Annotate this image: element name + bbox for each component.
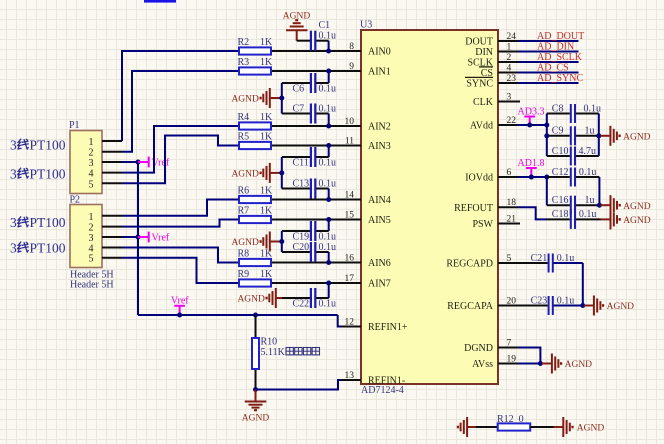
wire P2.3 to Vref node [122,236,138,238]
svg-text:6: 6 [507,168,512,178]
wire AD_DOUT [518,40,579,42]
svg-text:0.1u: 0.1u [319,31,337,42]
wire R2 output row to U3 [271,50,361,52]
resistor R10 5.11K [252,315,259,390]
wire R6 output row to U3 [271,199,361,201]
wire AD_SCLK [518,61,579,63]
R10 value label 5.11K precision resistor [261,347,320,358]
svg-text:REFOUT: REFOUT [454,203,493,214]
svg-text:AD_CS: AD_CS [537,63,569,74]
svg-text:R4: R4 [238,112,250,123]
svg-text:IOVdd: IOVdd [465,173,493,184]
svg-text:Vref: Vref [152,233,170,244]
junction C23/C21 right [580,303,585,308]
svg-text:0.1u: 0.1u [319,231,337,242]
pin 10 (AIN2) of U3 [341,117,391,133]
pin 7 (DGND) of U3 [464,338,518,354]
svg-text:3: 3 [89,158,94,169]
power port AD3.3 [518,106,545,125]
resistor R6 1K [238,185,274,203]
pin 9 (AIN1) of U3 [341,62,391,78]
wire P2.1 to R6 [122,200,239,216]
ground AGND (AVdd cluster) [600,126,650,146]
ground AGND (AVss) [542,354,592,374]
net label AD_SCLK [537,52,583,63]
svg-text:1K: 1K [260,131,273,142]
svg-text:AGND: AGND [231,238,259,248]
svg-text:C8: C8 [552,103,564,114]
svg-text:PT100: PT100 [30,240,66,255]
svg-text:0.1u: 0.1u [319,242,337,253]
capacitor C12 0.1u [547,167,600,187]
svg-text:REFIN1-: REFIN1- [368,376,405,387]
capacitor C22 0.1u [282,288,336,309]
text label 3-wire PT100 #4 [10,240,66,255]
junction at P1.3 / Vref [136,160,141,165]
wire R7 output row to U3 [271,219,361,221]
svg-text:1: 1 [89,212,94,223]
svg-text:AVss: AVss [472,359,493,370]
svg-text:5: 5 [89,254,94,265]
wire P1.5 to R5 [122,136,239,184]
svg-text:PSW: PSW [472,219,493,230]
svg-text:R5: R5 [238,131,250,142]
ground AGND (REGCAPA) [584,296,634,316]
pin 16 (AIN6) of U3 [341,253,391,269]
svg-text:1: 1 [89,137,94,148]
svg-text:0.1u: 0.1u [319,298,337,309]
junction C9 left [544,133,549,138]
svg-text:0.1u: 0.1u [557,253,575,264]
svg-text:20: 20 [507,296,517,306]
svg-text:PT100: PT100 [30,137,66,152]
wire R4 output row to U3 [271,125,361,127]
svg-text:3: 3 [89,233,94,244]
pin 14 (AIN4) of U3 [341,190,391,206]
text label 3-wire PT100 #3 [10,215,66,230]
svg-text:AIN7: AIN7 [368,279,391,290]
R10 designator label [261,337,278,348]
wire rail to REFIN1+ [338,315,341,327]
wire C21 drop to C23 row [582,263,584,306]
svg-text:C22: C22 [293,298,310,309]
svg-text:C6: C6 [293,83,305,94]
svg-text:AIN6: AIN6 [368,258,391,269]
svg-text:C21: C21 [531,253,548,264]
svg-text:C1: C1 [319,20,331,31]
svg-text:0.1u: 0.1u [319,178,337,189]
capacitor C10 4.7u [547,146,599,166]
wire C13 drop to AIN4 row [328,189,330,200]
connector P1 (Header 5H) [70,131,122,194]
resistor R2 1K [238,37,274,55]
svg-text:AD_SYNC: AD_SYNC [537,73,583,84]
svg-text:AGND: AGND [231,170,259,180]
svg-text:REFIN1+: REFIN1+ [368,322,408,333]
wire C6 riser to AIN1 row [328,71,330,83]
svg-text:AVdd: AVdd [470,121,493,132]
svg-text:1K: 1K [260,205,273,216]
wire cluster3 ground bus [281,231,283,252]
ground AGND (below R10) [242,390,270,424]
capacitor C18 0.1u [546,209,601,229]
junction C19/AIN5 [326,217,331,222]
junction C20/AIN6 [326,260,331,265]
wire cluster1 ground bus [281,83,283,114]
wire C20 drop to AIN6 row [328,252,330,263]
svg-text:R7: R7 [238,205,250,216]
capacitor C9 1u [547,126,599,146]
wire IOVdd row [518,176,547,178]
ground AGND (left of R12, pointing left) [458,417,475,437]
svg-text:19: 19 [507,354,517,364]
junction C1/AIN0 [326,49,331,54]
svg-text:1K: 1K [260,248,273,259]
svg-text:C7: C7 [293,103,305,114]
svg-text:AGND: AGND [231,95,259,105]
svg-text:R10: R10 [261,337,278,348]
junction C7/AIN2 [326,124,331,129]
svg-text:1u: 1u [585,126,595,137]
svg-text:1u: 1u [585,195,595,206]
svg-text:1K: 1K [260,37,273,48]
svg-text:23: 23 [507,74,517,84]
ground AGND (C22) [237,288,282,308]
capacitor C1 0.1u [297,20,336,51]
svg-text:AD_SCLK: AD_SCLK [537,52,583,63]
wire REFOUT to C18 [518,207,546,219]
svg-text:C23: C23 [531,295,548,306]
wire IOVdd cluster left bus [546,177,548,205]
svg-text:C20: C20 [293,242,310,253]
svg-text:REGCAPA: REGCAPA [447,301,494,312]
svg-text:C16: C16 [552,195,569,206]
ground AGND (C16) [601,195,651,215]
wire AGND to R12 [475,426,498,428]
wire P1.4 to R4 [122,126,239,173]
svg-text:R3: R3 [238,57,250,68]
ground AGND (C18) [601,209,651,229]
svg-text:1K: 1K [260,112,273,123]
svg-text:P2: P2 [70,195,81,206]
svg-text:AGND: AGND [283,12,311,22]
junction AD3.3/AVdd [527,123,532,128]
pin 1 (DIN) of U3 [475,42,518,58]
svg-text:12: 12 [345,317,355,327]
svg-text:AIN2: AIN2 [368,122,391,133]
pin 24 (DOUT) of U3 [465,32,518,48]
wire R9 output row to U3 [271,282,361,284]
svg-text:3: 3 [10,240,17,255]
junction R10 bottom [253,387,258,392]
pin 20 (REGCAPA) of U3 [447,296,518,312]
svg-text:0.1u: 0.1u [584,103,602,114]
text label 3-wire PT100 #1 [10,137,66,152]
svg-text:0.1u: 0.1u [579,167,597,178]
ground AGND (C6/C7) [231,88,281,108]
svg-text:R9: R9 [238,269,250,280]
pin 6 (IOVdd) of U3 [465,168,518,184]
pin 19 (AVss) of U3 [472,354,518,370]
pin 4 (CS) of U3 [479,63,518,79]
junction C16/C12 right [597,203,602,208]
svg-text:DIN: DIN [475,47,493,58]
svg-text:4: 4 [89,169,94,180]
pin 17 (AIN7) of U3 [341,274,391,290]
svg-text:R12: R12 [497,414,514,425]
wire R5 output row to U3 [271,145,361,147]
svg-text:AGND: AGND [237,295,265,305]
wire Vref rail [138,314,338,316]
pin 23 (SYNC) of U3 [465,74,518,90]
svg-text:3: 3 [10,137,17,152]
net label AD_CS [537,63,569,74]
svg-text:2: 2 [507,53,512,63]
svg-text:4.7u: 4.7u [579,146,597,157]
svg-text:0.1u: 0.1u [319,103,337,114]
svg-text:24: 24 [507,32,517,42]
net label AD_DIN [537,42,574,53]
text label 3-wire PT100 #2 [10,166,66,181]
svg-text:AIN3: AIN3 [368,141,391,152]
svg-text:18: 18 [507,198,517,208]
svg-text:AGND: AGND [623,132,651,142]
svg-text:AGND: AGND [623,202,651,212]
svg-text:0.1u: 0.1u [557,295,575,306]
pin 2 (SCLK) of U3 [467,53,518,69]
junction C11/AIN3 [326,143,331,148]
wire AVdd to bus [518,124,547,126]
junction C6/AIN1 [326,69,331,74]
svg-text:C10: C10 [552,146,569,157]
svg-text:5: 5 [507,254,512,264]
op-amp U1 -- ADC IC U3 AD7124-4 body [361,30,498,384]
pin 22 (AVdd) of U3 [470,116,518,132]
svg-text:DOUT: DOUT [465,37,493,48]
svg-text:3: 3 [10,166,17,181]
P2 value label Header 5H [70,269,114,280]
connector P2 (Header 5H) [70,205,122,268]
svg-text:AIN4: AIN4 [368,195,391,206]
ground AGND (C19/C20) [231,232,281,252]
wire R12 to AGND [530,426,557,428]
pin 13 (REFIN1-) of U3 [341,371,405,387]
svg-text:C12: C12 [552,167,569,178]
wire AD_CS [518,72,579,74]
svg-text:4: 4 [507,63,512,73]
svg-text:21: 21 [507,214,517,224]
U3 designator label [360,20,372,31]
wire DGND to AVss [518,348,540,364]
junction C13/AIN4 [326,197,331,202]
wire cluster2 ground bus [281,157,283,189]
svg-text:3: 3 [507,92,512,102]
svg-text:AD_DIN: AD_DIN [537,42,574,53]
power port Vref (at P1.3) [138,157,170,169]
svg-text:1K: 1K [260,269,273,280]
capacitor C8 0.1u [547,103,601,123]
svg-text:AIN0: AIN0 [368,47,391,58]
wire P2.4 to R8 [122,248,239,263]
wire (clipped blue segment at top edge) [144,0,176,3]
junction AD1.8/IOVdd [529,175,534,180]
svg-text:0.1u: 0.1u [319,83,337,94]
svg-text:1K: 1K [260,185,273,196]
P2 designator label [70,195,81,206]
resistor R5 1K [238,131,274,149]
svg-text:AGND: AGND [577,424,605,434]
svg-text:Header 5H: Header 5H [70,279,114,290]
wire C19 riser to AIN5 row [328,220,330,232]
resistor R4 1K [238,112,274,130]
capacitor C23 0.1u [518,295,583,315]
resistor R3 1K [238,57,274,75]
resistor R7 1K [238,205,274,223]
U3 part value label AD7124-4 [361,385,404,396]
junction AGND cluster1 [279,96,284,101]
svg-text:0.1u: 0.1u [579,209,597,220]
wire P1.1 to R2 [122,51,239,141]
svg-text:13: 13 [345,371,355,381]
svg-text:3: 3 [10,215,17,230]
svg-text:AGND: AGND [242,414,270,424]
capacitor C11 0.1u [282,147,336,168]
wire C7 drop to AIN2 row [328,114,330,127]
svg-text:PT100: PT100 [30,166,66,181]
wire C11 riser to AIN3 row [328,146,330,158]
wire AVss row [518,363,540,365]
svg-text:AIN1: AIN1 [368,67,391,78]
resistor R8 1K [238,248,274,266]
pin 18 (REFOUT) of U3 [454,198,518,214]
junction C22/AIN7 [326,281,331,286]
power port Vref (at P2.3) [138,232,170,244]
ground AGND (right of R12) [553,417,604,437]
svg-text:R8: R8 [238,248,250,259]
svg-text:DGND: DGND [464,343,493,354]
svg-text:AD_DOUT: AD_DOUT [537,31,584,42]
svg-text:AGND: AGND [565,360,593,370]
svg-text:C19: C19 [293,231,310,242]
wire AVdd cluster left bus [546,114,548,157]
svg-text:5.11K: 5.11K [261,347,286,358]
capacitor C6 0.1u [282,73,336,94]
svg-text:CLK: CLK [473,97,494,108]
ground AGND (C1, pointing up) [283,12,311,41]
junction at P2.3 / Vref [136,235,141,240]
capacitor C13 0.1u [282,178,336,198]
svg-text:5: 5 [89,179,94,190]
svg-text:AGND: AGND [623,216,651,226]
pin 5 (REGCAPD) of U3 [446,254,518,270]
junction AGND cluster3 [279,239,284,244]
capacitor C7 0.1u [282,103,336,123]
pin 11 (AIN3) of U3 [341,136,391,152]
capacitor C21 0.1u [518,253,583,273]
wire AVdd cluster right bus [598,114,600,157]
pin 8 (AIN0) of U3 [341,42,391,58]
svg-text:C18: C18 [552,209,569,220]
P2 value label Header 5H (second line) [70,279,114,290]
junction AVdd/bus [544,123,549,128]
junction AGND cluster2 [279,170,284,175]
junction C9 right [596,133,601,138]
svg-text:P1: P1 [69,120,80,131]
svg-text:AIN5: AIN5 [368,215,391,226]
wire AD_DIN [518,51,579,53]
wire AD_SYNC [518,82,579,84]
wire P2.5 to R9 [122,258,239,283]
svg-text:1: 1 [507,42,512,52]
svg-text:C13: C13 [293,178,310,189]
svg-text:2: 2 [89,223,94,234]
capacitor C20 0.1u [282,242,336,262]
resistor R9 1K [238,269,274,287]
wire C22 riser to AIN7 row [328,283,330,298]
pin 3 (CLK) of U3 [473,92,520,108]
svg-text:C11: C11 [293,157,309,168]
svg-text:C9: C9 [552,126,564,137]
capacitor C16 1u [547,195,600,215]
junction DGND/AVss [538,361,543,366]
power port AD1.8 [518,158,545,177]
svg-text:7: 7 [507,338,512,348]
wire R10 bottom to REFIN1- [256,380,342,390]
power port Vref (rail) [171,296,189,316]
svg-text:REGCAPD: REGCAPD [446,259,493,270]
node Vref vertical bus [137,162,139,315]
svg-text:1K: 1K [260,57,273,68]
svg-text:R6: R6 [238,185,250,196]
wire R3 output row to U3 [271,70,361,72]
junction Vref rail [177,313,182,318]
pin 12 (REFIN1+) of U3 [341,317,408,333]
resistor R12 0 ohm [497,414,530,431]
svg-text:SYNC: SYNC [466,79,493,90]
wire C12 right drop [598,177,600,205]
junction R10 top [253,313,258,318]
wire C1 drop to AIN0 row [328,41,330,51]
svg-text:0: 0 [519,414,524,425]
svg-text:R2: R2 [238,37,250,48]
pin 21 (PSW) of U3 [472,214,520,230]
wire P1.2 to R3 [122,71,239,152]
svg-text:PT100: PT100 [30,215,66,230]
svg-text:AGND: AGND [607,302,635,312]
wire P2.2 to R7 [122,220,239,227]
capacitor C19 0.1u [282,221,336,242]
pin 15 (AIN5) of U3 [341,210,391,226]
net label AD_DOUT [537,31,584,42]
wire P1.3 to Vref node [122,161,138,163]
svg-text:U3: U3 [360,20,372,31]
junction IOVdd/bus [544,175,549,180]
P1 designator label [69,120,80,131]
ground AGND (C11/C13) [231,163,281,183]
net label AD_SYNC [537,73,583,84]
wire R8 output row to U3 [271,262,361,264]
svg-text:AD7124-4: AD7124-4 [361,385,404,396]
svg-text:0.1u: 0.1u [319,157,337,168]
svg-text:22: 22 [507,116,517,126]
